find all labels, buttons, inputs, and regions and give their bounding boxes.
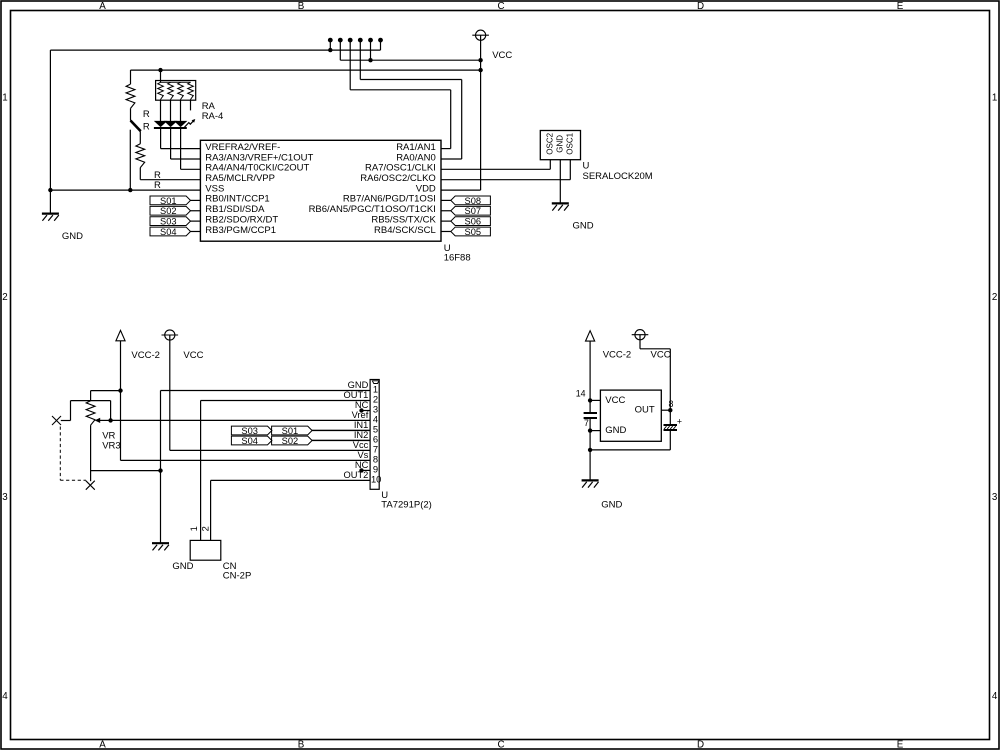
svg-text:+: + (677, 417, 682, 427)
svg-text:OUT2: OUT2 (344, 470, 369, 480)
svg-text:VSS: VSS (205, 183, 224, 194)
svg-text:8: 8 (669, 399, 674, 409)
svg-text:B: B (298, 1, 305, 12)
svg-text:VCC: VCC (651, 350, 671, 361)
svg-text:IN2: IN2 (354, 430, 368, 440)
svg-text:GND: GND (172, 561, 193, 572)
svg-text:VCC: VCC (183, 350, 203, 361)
svg-text:NC: NC (355, 400, 369, 410)
svg-text:GND: GND (605, 425, 626, 436)
svg-text:4: 4 (992, 691, 998, 702)
svg-text:RB3/PGM/CCP1: RB3/PGM/CCP1 (205, 225, 276, 236)
svg-text:GND: GND (601, 499, 622, 510)
svg-text:10: 10 (371, 474, 381, 485)
svg-text:RA1/AN1: RA1/AN1 (396, 142, 436, 153)
svg-text:A: A (99, 740, 106, 750)
svg-text:RB7/AN6/PGD/T1OSI: RB7/AN6/PGD/T1OSI (343, 194, 436, 205)
svg-text:RA4/AN4/T0CKI/C2OUT: RA4/AN4/T0CKI/C2OUT (205, 163, 309, 174)
svg-text:S08: S08 (465, 196, 482, 206)
svg-text:OSC1: OSC1 (566, 132, 575, 154)
svg-text:1: 1 (188, 526, 199, 531)
svg-text:OUT: OUT (635, 405, 655, 416)
svg-text:GND: GND (348, 380, 369, 390)
svg-text:RB5/SS/TX/CK: RB5/SS/TX/CK (371, 214, 436, 225)
svg-text:1: 1 (2, 92, 7, 103)
svg-text:CN-2P: CN-2P (223, 570, 252, 581)
svg-text:C: C (497, 1, 504, 12)
svg-text:3: 3 (992, 492, 998, 503)
svg-text:RA7/OSC1/CLKI: RA7/OSC1/CLKI (365, 163, 436, 174)
svg-text:RA5/MCLR/VPP: RA5/MCLR/VPP (205, 173, 275, 184)
svg-text:7: 7 (584, 418, 589, 428)
svg-text:TA7291P(2): TA7291P(2) (381, 500, 432, 511)
svg-text:R: R (143, 109, 150, 120)
svg-text:S07: S07 (465, 206, 482, 216)
svg-text:RB2/SDO/RX/DT: RB2/SDO/RX/DT (205, 214, 278, 225)
svg-text:14: 14 (576, 389, 586, 399)
svg-text:VCC-2: VCC-2 (603, 350, 632, 361)
svg-text:D: D (697, 740, 704, 750)
svg-text:RA-4: RA-4 (202, 111, 224, 122)
svg-text:RA6/OSC2/CLKO: RA6/OSC2/CLKO (360, 173, 436, 184)
svg-text:E: E (897, 740, 904, 750)
svg-text:S04: S04 (241, 436, 258, 446)
svg-text:Vcc: Vcc (353, 440, 369, 450)
svg-text:A: A (99, 1, 106, 12)
svg-text:16F88: 16F88 (444, 253, 471, 264)
svg-text:1: 1 (992, 92, 997, 103)
svg-text:VCC: VCC (605, 395, 625, 406)
svg-text:GND: GND (573, 221, 594, 232)
svg-text:S01: S01 (160, 196, 177, 206)
svg-text:S03: S03 (241, 426, 258, 436)
svg-text:Vs: Vs (357, 450, 368, 460)
svg-text:RB1/SDI/SDA: RB1/SDI/SDA (205, 204, 265, 215)
svg-text:VR3: VR3 (102, 440, 120, 451)
svg-text:S03: S03 (160, 217, 177, 227)
svg-text:3: 3 (2, 492, 8, 503)
svg-text:R: R (154, 180, 161, 191)
svg-text:SERALOCK20M: SERALOCK20M (583, 171, 653, 182)
svg-text:S02: S02 (282, 436, 299, 446)
svg-text:RB4/SCK/SCL: RB4/SCK/SCL (374, 225, 436, 236)
svg-text:OUT1: OUT1 (344, 390, 369, 400)
svg-text:2: 2 (2, 292, 7, 303)
svg-text:E: E (897, 1, 904, 12)
svg-text:2: 2 (200, 526, 211, 531)
svg-text:RB6/AN5/PGC/T1OSO/T1CKI: RB6/AN5/PGC/T1OSO/T1CKI (309, 204, 436, 215)
svg-text:S02: S02 (160, 206, 177, 216)
svg-text:RA0/AN0: RA0/AN0 (396, 152, 436, 163)
svg-text:VCC-2: VCC-2 (131, 350, 160, 361)
svg-text:VREFRA2/VREF-: VREFRA2/VREF- (205, 142, 280, 153)
svg-text:B: B (298, 740, 305, 750)
svg-text:S05: S05 (465, 227, 482, 237)
svg-text:D: D (697, 1, 704, 12)
svg-text:2: 2 (992, 292, 997, 303)
svg-text:C: C (497, 740, 504, 750)
svg-text:RA3/AN3/VREF+/C1OUT: RA3/AN3/VREF+/C1OUT (205, 152, 313, 163)
svg-text:GND: GND (62, 231, 83, 242)
svg-text:OSC2: OSC2 (546, 132, 555, 154)
svg-text:S04: S04 (160, 227, 177, 237)
svg-text:R: R (143, 122, 150, 133)
svg-text:S06: S06 (465, 217, 482, 227)
svg-text:IN1: IN1 (354, 420, 368, 430)
svg-text:S01: S01 (282, 426, 299, 436)
svg-text:VCC: VCC (492, 50, 512, 61)
svg-text:VDD: VDD (416, 183, 436, 194)
svg-text:RB0/INT/CCP1: RB0/INT/CCP1 (205, 194, 269, 205)
svg-text:4: 4 (2, 691, 8, 702)
svg-text:GND: GND (556, 135, 565, 153)
svg-text:U: U (583, 160, 590, 171)
